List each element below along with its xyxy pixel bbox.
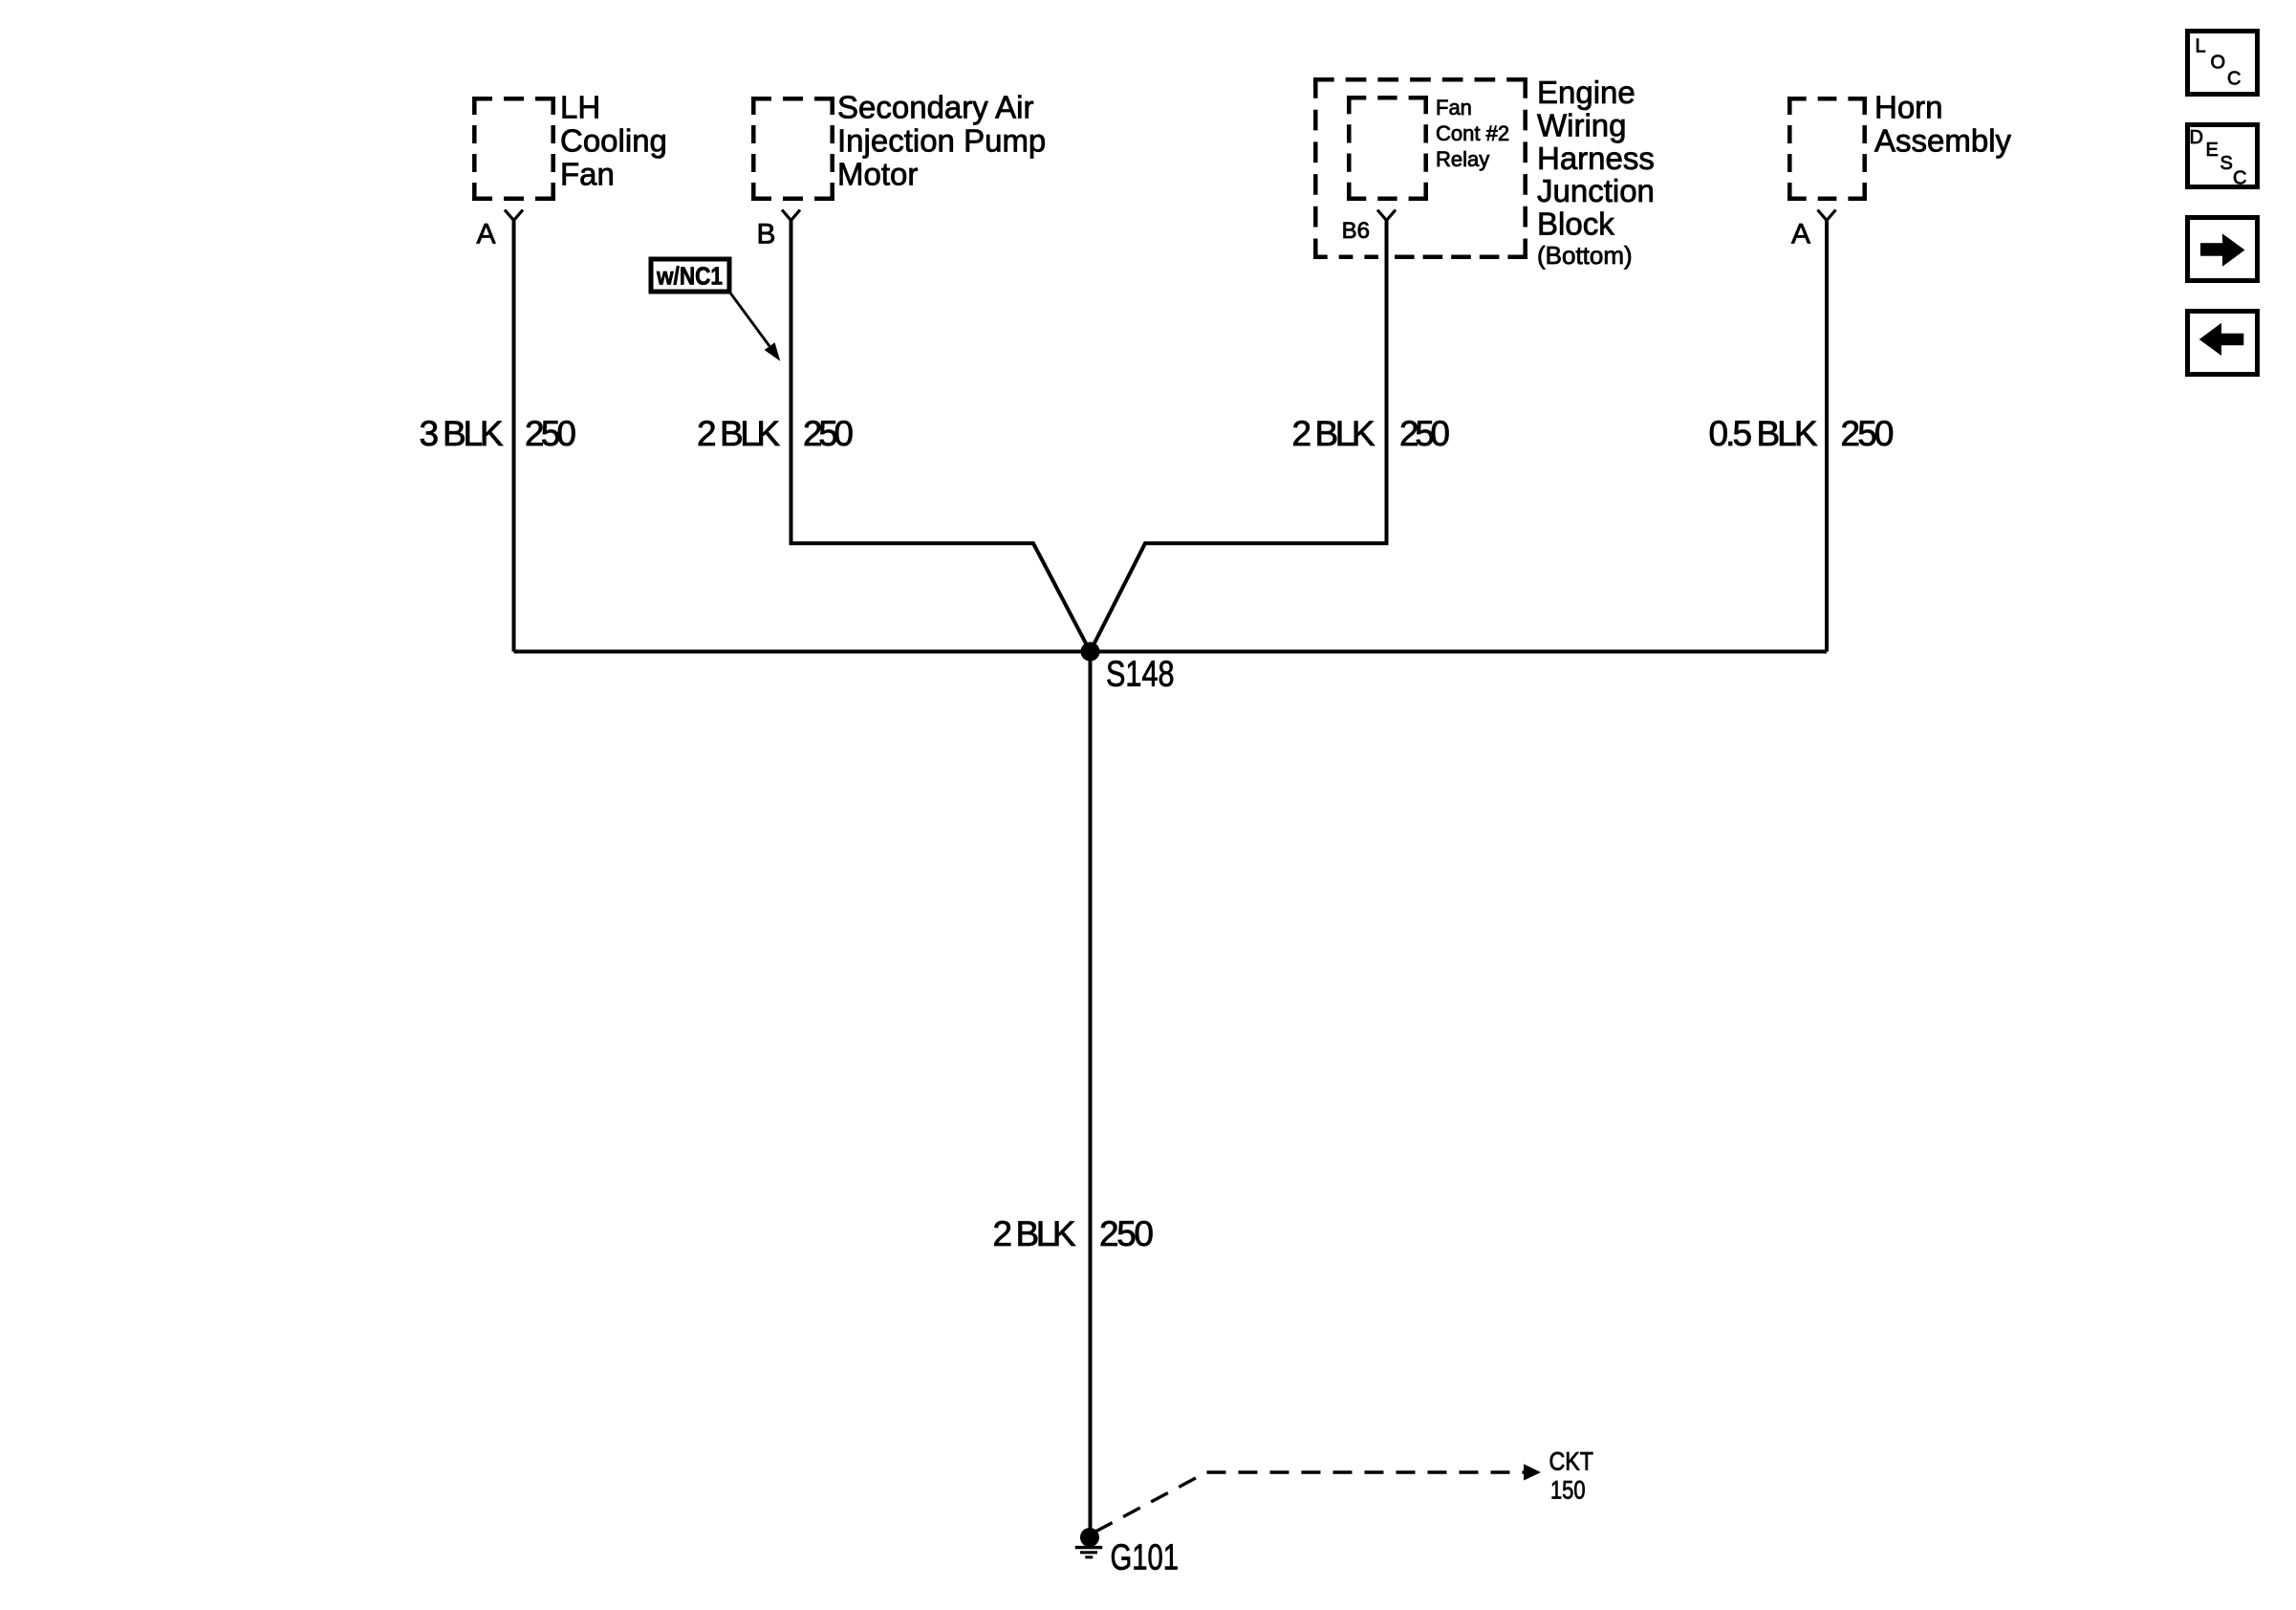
svg-text:E: E [2206, 140, 2219, 161]
svg-text:Fan: Fan [1436, 96, 1472, 120]
ground G101 [1075, 1528, 1179, 1578]
svg-text:250: 250 [1399, 414, 1450, 453]
svg-text:Secondary Air: Secondary Air [837, 90, 1033, 125]
label: Fan Cont #2 Relay [1436, 96, 1509, 171]
wire: horn assembly ground lead [1825, 220, 1829, 652]
wire: relay B6 ground lead (with bend and diagonal) [1091, 220, 1387, 652]
svg-text:Engine: Engine [1537, 75, 1635, 110]
label: Horn Assembly [1874, 90, 2012, 159]
svg-text:0.5 BLK: 0.5 BLK [1709, 414, 1818, 453]
svg-text:Injection Pump: Injection Pump [837, 123, 1046, 159]
wire: secondary air pump ground lead (with bend and diagonal) [791, 220, 1091, 652]
svg-text:B6: B6 [1342, 218, 1370, 244]
svg-text:250: 250 [1099, 1214, 1154, 1253]
inner dashed box: Fan Cont #2 Relay [1347, 96, 1428, 201]
svg-text:S148: S148 [1106, 655, 1175, 695]
label: LH Cooling Fan [560, 90, 667, 192]
svg-text:2 BLK: 2 BLK [1292, 414, 1375, 453]
svg-text:Block: Block [1537, 207, 1614, 242]
junction block outer dashed box: Engine Wiring Harness Junction Block [1313, 77, 1527, 259]
wire label: 2 BLK 250 (relay) [1292, 414, 1451, 453]
svg-text:250: 250 [525, 414, 576, 453]
connector fork Y (Secondary Air pin B) [782, 210, 800, 221]
svg-text:Assembly: Assembly [1874, 123, 2012, 159]
connector box: Secondary Air Injection Pump Motor [751, 97, 834, 201]
label: Engine Wiring Harness Junction Block (Bottom) [1537, 75, 1655, 270]
icon: back arrow box [2188, 312, 2258, 375]
svg-text:250: 250 [803, 414, 854, 453]
svg-text:2 BLK: 2 BLK [697, 414, 780, 453]
connector fork Y (Horn pin A) [1818, 210, 1836, 221]
w/NC1 callout box [651, 259, 729, 292]
svg-text:O: O [2211, 53, 2226, 74]
svg-text:B: B [756, 219, 775, 250]
svg-text:Cont #2: Cont #2 [1436, 121, 1509, 145]
connector box: Horn Assembly [1787, 97, 1867, 201]
svg-text:CKT: CKT [1549, 1447, 1594, 1476]
svg-text:G101: G101 [1111, 1538, 1180, 1578]
label: CKT 150 [1549, 1447, 1594, 1505]
svg-text:Wiring: Wiring [1537, 107, 1627, 142]
svg-text:A: A [1791, 219, 1810, 250]
svg-text:2 BLK: 2 BLK [993, 1214, 1076, 1253]
wire: LH cooling fan ground lead [512, 220, 516, 652]
wire label: 0.5 BLK 250 (horn) [1709, 414, 1895, 453]
icon: LOC box [2188, 32, 2258, 95]
wire label: 2 BLK 250 (secondary air) [697, 414, 854, 453]
svg-text:S: S [2220, 153, 2233, 174]
svg-text:Relay: Relay [1436, 147, 1489, 171]
label: Secondary Air Injection Pump Motor [837, 90, 1046, 192]
splice node S148 [1081, 642, 1100, 662]
svg-text:C: C [2233, 168, 2246, 189]
arrowhead to CKT 150 [1524, 1464, 1541, 1480]
connector box: LH Cooling Fan [472, 97, 555, 201]
svg-text:A: A [476, 219, 495, 250]
svg-text:(Bottom): (Bottom) [1537, 241, 1633, 270]
svg-text:D: D [2190, 127, 2203, 148]
svg-text:250: 250 [1841, 414, 1895, 453]
icon: DESC box [2188, 125, 2258, 189]
svg-text:Horn: Horn [1874, 90, 1943, 125]
w/NC1 leader arrow [729, 292, 780, 361]
svg-text:Junction: Junction [1537, 173, 1655, 208]
connector fork Y (LH Cooling Fan pin A) [505, 210, 523, 221]
svg-text:150: 150 [1550, 1476, 1586, 1505]
svg-text:w/NC1: w/NC1 [656, 262, 723, 291]
wire: main horizontal bus [514, 650, 1828, 654]
svg-text:Fan: Fan [560, 157, 615, 192]
svg-text:L: L [2196, 36, 2206, 57]
svg-text:3 BLK: 3 BLK [420, 414, 504, 453]
dashed reference wire to CKT 150 [1095, 1472, 1524, 1532]
svg-text:C: C [2227, 69, 2241, 90]
icon: forward arrow box [2188, 218, 2258, 281]
connector fork Y (relay pin B6) [1377, 210, 1396, 221]
wire: splice to ground [1089, 652, 1093, 1538]
svg-text:Motor: Motor [837, 157, 918, 192]
wire label: 3 BLK 250 [420, 414, 577, 453]
svg-text:Harness: Harness [1537, 141, 1655, 176]
svg-text:LH: LH [560, 90, 600, 125]
svg-text:Cooling: Cooling [560, 123, 667, 159]
wire label: 2 BLK 250 (ground leg) [993, 1214, 1155, 1253]
